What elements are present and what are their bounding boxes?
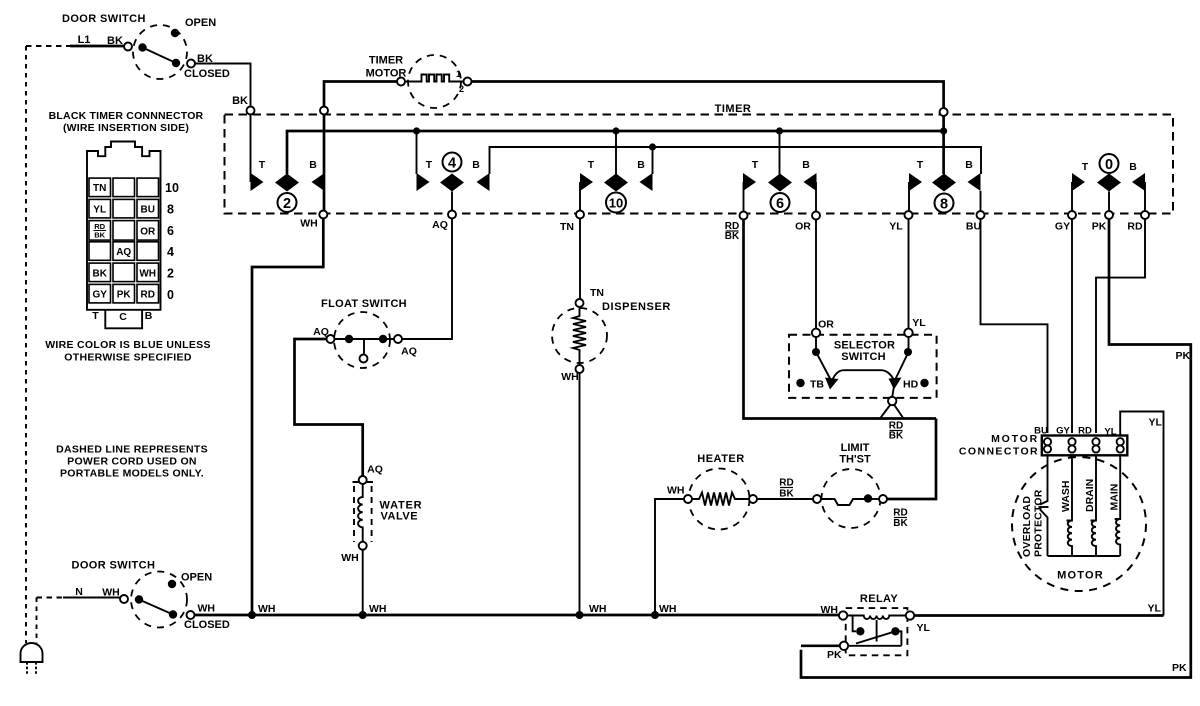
water valve WV1 ticks — [353, 481, 374, 483]
svg-text:4: 4 — [448, 156, 456, 172]
svg-text:T: T — [588, 159, 595, 171]
svg-text:WH: WH — [561, 371, 579, 383]
selector TB contact — [825, 378, 839, 390]
relay actuator link — [876, 620, 878, 642]
svg-text:BK: BK — [779, 489, 794, 500]
door switch DS1 — [124, 25, 195, 79]
limit thermostat terminal right — [879, 495, 887, 503]
svg-text:BK: BK — [92, 268, 107, 279]
svg-text:DISPENSER: DISPENSER — [602, 301, 671, 313]
selector switch SS1 (dashed box) — [789, 335, 937, 398]
wire SW8-T to YL terminal — [908, 182, 910, 211]
cam switch SW10 — [580, 159, 653, 213]
water valve WV1 terminal bottom — [359, 542, 367, 550]
wire AQ from timer SW4 to float switch — [402, 219, 452, 340]
svg-text:6: 6 — [167, 224, 174, 238]
terminal BK at timer top — [247, 107, 255, 115]
svg-text:1: 1 — [456, 69, 461, 79]
svg-text:C: C — [119, 311, 127, 323]
wire SW6 diamond riser — [779, 131, 781, 175]
water valve WV1 coil — [358, 484, 363, 542]
svg-text:YL: YL — [912, 317, 926, 329]
svg-text:T: T — [752, 159, 759, 171]
wire SW4 diamond to AQ terminal — [451, 192, 453, 211]
selector dot left of TB — [796, 379, 804, 387]
svg-text:BK: BK — [893, 518, 908, 529]
wire YL relay to motor corner — [914, 614, 1163, 617]
svg-text:OPEN: OPEN — [185, 17, 216, 29]
motor drain winding — [1091, 455, 1097, 556]
svg-text:2: 2 — [167, 267, 174, 281]
motor overload protector branch — [1040, 455, 1048, 556]
float switch FS1 (dashed circle) — [334, 312, 390, 368]
svg-text:PROTECTOR: PROTECTOR — [1033, 489, 1045, 557]
wire SW6-B to OR terminal — [815, 182, 817, 212]
svg-text:10: 10 — [165, 181, 179, 195]
limit thermostat element — [821, 499, 864, 505]
wire SW10-B drop — [652, 147, 654, 174]
svg-text:T: T — [917, 159, 924, 171]
wire RD/BK from timer SW6-T down — [744, 220, 937, 419]
svg-text:CONNECTOR: CONNECTOR — [959, 446, 1039, 458]
wire SW8-B to BU terminal — [980, 191, 982, 211]
junction bus1/SW8 — [940, 127, 947, 134]
svg-text:LIMIT: LIMIT — [841, 442, 870, 454]
selector terminal OR — [812, 329, 820, 337]
connector J1 cell label RD/BK pin 6T — [94, 222, 105, 240]
svg-text:0: 0 — [1105, 157, 1113, 173]
svg-text:YL: YL — [93, 204, 106, 215]
svg-text:GY: GY — [1056, 426, 1070, 437]
svg-text:T: T — [426, 159, 433, 171]
timer bottom terminals — [319, 211, 327, 219]
svg-text:TB: TB — [810, 379, 824, 391]
svg-text:B: B — [1129, 161, 1137, 173]
svg-text:HEATER: HEATER — [697, 453, 744, 465]
svg-text:(WIRE INSERTION SIDE): (WIRE INSERTION SIDE) — [63, 122, 189, 134]
relay PK jumper — [848, 645, 901, 647]
svg-text:DRAIN: DRAIN — [1084, 479, 1096, 512]
timer motor terminal right — [464, 78, 472, 86]
timer motor TM1 (dashed circle) — [408, 55, 461, 108]
svg-text:CLOSED: CLOSED — [184, 619, 230, 631]
svg-text:B: B — [145, 310, 153, 322]
label RD/BK between heater and limit — [779, 478, 794, 500]
dispenser terminal top — [576, 299, 584, 307]
terminal at timer top x324 — [320, 107, 328, 115]
timer box (dashed) — [225, 115, 1174, 214]
selector dot right of HD — [920, 379, 928, 387]
svg-text:WH: WH — [139, 268, 156, 279]
svg-text:WIRE COLOR IS BLUE UNLESS: WIRE COLOR IS BLUE UNLESS — [45, 339, 211, 351]
svg-text:YL: YL — [889, 221, 903, 233]
limit thermostat terminal left — [813, 495, 821, 503]
wire L1 power cord (dashed) — [26, 45, 70, 47]
power plug P1 — [21, 643, 43, 674]
selector HD contact — [889, 378, 902, 390]
wire limit thermostat to selector output — [887, 419, 936, 500]
selector blade TB-HD — [831, 370, 894, 382]
wire YL motor connector to relay line — [1120, 412, 1163, 616]
label RD/BK below X node — [889, 421, 904, 442]
junction bus1/SW10 — [612, 127, 619, 134]
svg-text:10: 10 — [609, 196, 623, 211]
door switch DS2 — [120, 572, 195, 628]
svg-text:6: 6 — [776, 196, 784, 212]
selector YL leg — [895, 337, 909, 381]
wire PK from timer to bottom right — [801, 219, 1191, 678]
motor wash winding — [1067, 455, 1073, 556]
svg-text:8: 8 — [940, 197, 948, 213]
svg-text:PK: PK — [827, 649, 842, 661]
svg-text:TIMER: TIMER — [715, 103, 752, 115]
motor connector pin BU — [1044, 438, 1051, 453]
wire SW4-T drop — [416, 131, 418, 174]
svg-text:YL: YL — [1149, 417, 1163, 429]
svg-text:N: N — [75, 586, 83, 598]
svg-text:AQ: AQ — [313, 326, 329, 338]
wire N (dashed) — [37, 597, 64, 599]
svg-text:MOTOR: MOTOR — [1057, 570, 1104, 582]
svg-text:PK: PK — [1092, 221, 1107, 233]
svg-text:RD: RD — [893, 508, 907, 519]
svg-text:OR: OR — [818, 319, 834, 331]
wire RD from timer to motor connector — [1096, 219, 1145, 433]
wire timer motor to SW2-B drop — [324, 82, 397, 107]
svg-text:DOOR SWITCH: DOOR SWITCH — [72, 560, 156, 572]
label RD/BK right of limit — [893, 508, 908, 530]
motor M1 (dashed circle) — [1012, 457, 1146, 591]
wire AQ float switch to water valve — [295, 339, 363, 476]
svg-text:VALVE: VALVE — [381, 511, 419, 523]
svg-text:0: 0 — [167, 288, 174, 302]
cam switch SW8 — [909, 159, 981, 213]
dispenser resistor element — [573, 307, 586, 365]
svg-text:WH: WH — [300, 218, 318, 230]
svg-text:WH: WH — [821, 604, 839, 616]
selector output to X node — [892, 386, 894, 397]
svg-text:PK: PK — [1176, 350, 1191, 362]
svg-text:B: B — [637, 159, 645, 171]
svg-text:OPEN: OPEN — [181, 572, 212, 584]
wire SW10-T to TN terminal — [579, 182, 581, 211]
svg-text:TIMER: TIMER — [369, 55, 403, 67]
svg-text:AQ: AQ — [432, 219, 448, 231]
relay coil — [847, 616, 906, 620]
svg-text:RD: RD — [1078, 426, 1092, 437]
wire PK from relay to cord path — [801, 644, 840, 647]
svg-text:PK: PK — [1172, 662, 1187, 674]
wire SW6-T to RD/BK terminal — [743, 182, 745, 212]
svg-text:TH'ST: TH'ST — [839, 454, 871, 466]
main bottom bus WH — [195, 614, 844, 617]
svg-text:T: T — [92, 310, 99, 322]
motor connector pin GY — [1068, 438, 1075, 453]
wire SW10 diamond riser — [615, 131, 617, 175]
svg-text:BU: BU — [140, 204, 154, 215]
dispenser terminal bottom — [576, 365, 584, 373]
svg-text:GY: GY — [92, 290, 107, 301]
cam switch SW4 — [417, 153, 490, 192]
svg-text:WH: WH — [369, 603, 387, 615]
svg-text:RD: RD — [779, 478, 793, 489]
wire BK from DS1 to timer — [195, 64, 251, 107]
svg-text:WH: WH — [589, 603, 607, 615]
svg-text:T: T — [259, 159, 266, 171]
motor main winding — [1115, 455, 1121, 556]
svg-text:8: 8 — [167, 203, 174, 217]
relay terminal PK — [840, 642, 848, 650]
wire OR from timer SW6-B to selector — [815, 220, 817, 329]
cam switch SW6 — [743, 159, 817, 212]
water valve WV1 (dashed box) — [354, 486, 372, 542]
relay terminal YL — [906, 611, 914, 619]
timer motor terminal left — [397, 78, 405, 86]
heater terminal right — [749, 495, 757, 503]
wire BU from timer to motor connector — [981, 219, 1048, 433]
svg-text:WH: WH — [198, 603, 216, 615]
connector J1 cell grid — [89, 178, 159, 303]
svg-text:TN: TN — [93, 183, 106, 194]
svg-text:2: 2 — [459, 84, 464, 94]
wire L1 solid into DS1 — [70, 45, 124, 48]
junction bus2/SW10-B — [649, 143, 656, 150]
wire WH water valve to bus — [362, 550, 364, 615]
svg-text:GY: GY — [1055, 221, 1070, 233]
svg-text:BU: BU — [1034, 426, 1048, 437]
relay contact moving + blade — [891, 627, 899, 635]
svg-text:WASH: WASH — [1060, 481, 1072, 513]
motor connector pin YL — [1117, 438, 1124, 453]
junction bus/water valve — [359, 611, 367, 619]
svg-text:DASHED LINE REPRESENTS: DASHED LINE REPRESENTS — [56, 444, 208, 456]
wire N solid into DS2 — [63, 597, 120, 599]
svg-text:T: T — [1082, 161, 1089, 173]
selector terminal YL — [904, 329, 912, 337]
svg-text:PK: PK — [117, 290, 132, 301]
label RD/BK below SW6-T — [725, 221, 740, 242]
junction bus1/SW4-T — [413, 127, 420, 134]
svg-text:YL: YL — [1148, 603, 1162, 615]
wire TN from timer SW10 to dispenser — [579, 219, 581, 300]
svg-text:YL: YL — [1104, 427, 1116, 438]
svg-text:TN: TN — [560, 221, 574, 233]
bus 1 inside timer — [287, 131, 944, 174]
relay terminal WH — [839, 611, 847, 619]
wire WH dispenser to bus — [579, 373, 581, 615]
float switch blade and contacts — [335, 338, 395, 340]
heater HE1 (dashed circle) — [689, 469, 750, 530]
svg-text:WH: WH — [659, 603, 677, 615]
wire N power-cord drop (dashed) — [36, 598, 38, 644]
wire timer motor to SW8 drop — [472, 82, 944, 109]
wire SW2-B vertical x324 — [323, 115, 326, 211]
float switch terminal left — [327, 335, 335, 343]
svg-text:MAIN: MAIN — [1109, 484, 1121, 511]
connector J1 row numbers — [165, 181, 179, 302]
terminal at timer top x943.6 — [940, 108, 948, 116]
timer motor coil — [405, 75, 464, 82]
wire L1 left power-cord drop (dashed) — [25, 46, 27, 643]
svg-text:OTHERWISE SPECIFIED: OTHERWISE SPECIFIED — [64, 352, 192, 364]
svg-text:BU: BU — [966, 221, 981, 233]
svg-text:DOOR SWITCH: DOOR SWITCH — [62, 13, 146, 25]
svg-text:BK: BK — [232, 95, 248, 107]
svg-text:WH: WH — [667, 485, 685, 497]
wire GY from timer to motor connector — [1071, 219, 1073, 433]
wire SW2-T from BK terminal — [250, 115, 252, 183]
svg-text:MOTOR: MOTOR — [991, 433, 1039, 445]
X crossing legs below selector — [880, 405, 904, 419]
cam switch SW2 — [251, 159, 325, 212]
svg-text:POWER CORD USED ON: POWER CORD USED ON — [67, 456, 197, 468]
wire SW0-T to GY terminal — [1071, 182, 1073, 211]
svg-text:B: B — [965, 159, 973, 171]
svg-text:CLOSED: CLOSED — [184, 68, 230, 80]
junction bus/WH-SW2 — [248, 611, 256, 619]
svg-text:SELECTOR: SELECTOR — [834, 340, 895, 352]
motor connector J2 box — [1042, 436, 1128, 456]
timer connector J1 outline — [87, 142, 161, 310]
svg-text:HD: HD — [903, 379, 919, 391]
relay contact fixed (from WH side) — [853, 616, 856, 632]
svg-text:B: B — [309, 159, 317, 171]
wire heater branch riser — [655, 499, 684, 615]
svg-text:BK: BK — [889, 431, 904, 442]
svg-text:AQ: AQ — [116, 247, 131, 258]
svg-text:SWITCH: SWITCH — [841, 351, 886, 363]
connector J1 cell labels — [92, 183, 156, 301]
wire YL from timer SW8-T to selector — [908, 219, 910, 329]
svg-text:AQ: AQ — [367, 464, 383, 476]
svg-text:B: B — [472, 159, 480, 171]
svg-text:B: B — [802, 159, 810, 171]
svg-text:BLACK TIMER CONNNECTOR: BLACK TIMER CONNNECTOR — [49, 110, 204, 122]
wire SW0 diamond to PK terminal — [1108, 192, 1110, 211]
wire SW0-B to RD terminal — [1144, 182, 1146, 211]
motor connector pin RD — [1092, 438, 1099, 453]
svg-text:YL: YL — [917, 622, 931, 634]
svg-text:RD: RD — [1127, 221, 1143, 233]
svg-text:2: 2 — [283, 196, 291, 212]
svg-text:RELAY: RELAY — [860, 593, 899, 605]
junction bus/dispenser — [576, 611, 584, 619]
junction bus1/SW6 — [776, 127, 783, 134]
svg-text:BK: BK — [94, 231, 105, 240]
timer connector J1 bottom tab — [105, 310, 142, 329]
water valve WV1 terminal top — [359, 476, 367, 484]
wire SW8 diamond drop — [942, 116, 945, 174]
svg-text:L1: L1 — [78, 34, 91, 46]
svg-text:RD: RD — [140, 290, 154, 301]
svg-text:WH: WH — [102, 587, 120, 599]
svg-text:AQ: AQ — [401, 346, 417, 358]
relay contact to PK path — [895, 631, 901, 646]
svg-text:WH: WH — [258, 603, 276, 615]
relay RY1 (dashed box) — [846, 608, 908, 655]
heater terminal left — [684, 495, 692, 503]
svg-text:OR: OR — [140, 227, 156, 238]
dispenser DP1 (dashed circle) — [552, 308, 607, 363]
wire WH from timer SW2-B to bottom bus — [252, 219, 323, 616]
svg-text:TN: TN — [590, 287, 604, 299]
svg-text:OR: OR — [795, 221, 811, 233]
junction bus/heater branch — [651, 611, 659, 619]
svg-text:4: 4 — [167, 245, 174, 259]
selector OR leg — [816, 337, 831, 381]
svg-text:WH: WH — [341, 552, 359, 564]
float switch terminal right — [394, 335, 402, 343]
svg-text:BK: BK — [725, 231, 740, 242]
svg-text:FLOAT SWITCH: FLOAT SWITCH — [321, 298, 407, 310]
bus 2 inside timer — [490, 147, 982, 174]
heater element resistor — [692, 493, 749, 506]
wire heater to limit thermostat — [757, 498, 813, 500]
motor internal common bus — [1048, 555, 1121, 557]
selector output terminal — [888, 397, 896, 405]
cam switch SW0 — [1072, 154, 1145, 192]
limit thermostat LT1 (dashed circle) — [822, 469, 881, 528]
svg-text:OVERLOAD: OVERLOAD — [1021, 496, 1033, 557]
svg-text:PORTABLE MODELS ONLY.: PORTABLE MODELS ONLY. — [60, 468, 204, 480]
